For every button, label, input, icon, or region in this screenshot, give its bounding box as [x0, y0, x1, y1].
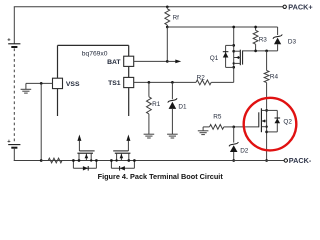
label PACK+	[288, 2, 312, 11]
wire: VSS pin to ground	[26, 83, 53, 89]
junction: bottom rail / VSS down wire	[40, 159, 43, 162]
net arrow: BAT node continues right	[167, 60, 181, 64]
resistor (series, unlabeled)	[48, 158, 62, 163]
junction: VSS wire / down wire	[40, 82, 43, 85]
junction: bottom rail / Q2 source	[265, 159, 268, 162]
svg-text:R1: R1	[152, 101, 161, 108]
svg-text:Figure 4. Pack Terminal Boot C: Figure 4. Pack Terminal Boot Circuit	[98, 172, 224, 181]
pin BAT (pin box)	[124, 56, 134, 66]
IC U1 bq769x0 (outline, bottom open)	[58, 45, 129, 116]
svg-text:Rf: Rf	[173, 16, 179, 22]
wire: battery stack top lead	[13, 7, 15, 44]
svg-text:PACK+: PACK+	[288, 2, 312, 11]
wire: BAT pin to Rf node	[134, 60, 168, 62]
junction: bottom rail / D2	[232, 159, 235, 162]
transistor: charge FET (with body diode, gate arrow to CHG)	[72, 135, 98, 171]
svg-text:R3: R3	[259, 36, 268, 43]
label VSS	[66, 81, 80, 88]
wire: PACK+ top rail	[14, 6, 283, 8]
caption	[98, 172, 224, 181]
svg-text:TS1: TS1	[108, 80, 121, 87]
resistor R3	[253, 27, 258, 51]
junction: gate node / R4	[265, 50, 268, 53]
svg-text:Q1: Q1	[210, 55, 219, 62]
junction: second rail / Q1 drain	[232, 26, 235, 29]
wire: VSS node down to bottom rail	[40, 83, 42, 160]
highlight circle around Q2	[244, 98, 297, 151]
label R4	[270, 73, 279, 80]
svg-text:D3: D3	[288, 38, 297, 45]
resistor R4	[264, 51, 269, 109]
junction: BAT node	[166, 60, 169, 63]
junction: Q2 gate node	[232, 126, 235, 129]
resistor Rf	[165, 7, 170, 27]
junction: gate node / R3	[254, 50, 257, 53]
label R1	[152, 101, 161, 108]
label PACK-	[289, 156, 312, 165]
svg-text:PACK‑: PACK‑	[289, 156, 312, 165]
wire: R5 to ground	[202, 127, 204, 131]
svg-text:Q2: Q2	[283, 119, 292, 126]
wire: battery stack (dashed, additional cells)	[13, 48, 15, 143]
wire: TS1 pin to Q1 source riser	[134, 67, 234, 82]
wire: Q2 gate to R5/D2 node	[234, 126, 259, 128]
junction: TS1 / R1	[148, 81, 151, 84]
label D2	[240, 147, 249, 154]
label R5	[213, 113, 222, 120]
resistor R2	[196, 80, 211, 85]
label R2	[197, 74, 206, 81]
label BAT	[107, 59, 121, 66]
resistor R1	[147, 82, 152, 134]
svg-text:D1: D1	[178, 104, 187, 111]
ground (R5)	[198, 131, 209, 135]
label Q2	[283, 119, 292, 126]
svg-text:R5: R5	[213, 113, 222, 120]
svg-text:R4: R4	[270, 73, 279, 80]
label bq769x0	[82, 51, 108, 58]
svg-text:bq769x0: bq769x0	[82, 51, 108, 58]
junction: second rail / R3	[254, 26, 257, 29]
wire: Rf line down to BAT node	[166, 27, 168, 61]
zener diode D2	[229, 127, 238, 161]
battery cell B2 (bottom of stack)	[7, 139, 20, 148]
junction: Rf bottom / second rail	[166, 26, 169, 29]
transistor: discharge FET (with body diode, gate arrow to DSG)	[110, 135, 136, 171]
zener diode D3	[273, 27, 282, 51]
terminal PACK-	[284, 159, 287, 162]
ground (R1)	[144, 134, 155, 138]
wire: bottom rail	[41, 160, 284, 162]
junction: TS1 / D1	[171, 81, 174, 84]
resistor R5	[203, 125, 234, 130]
battery cell B1 (top of stack)	[7, 38, 20, 47]
junction: top rail / Rf	[166, 5, 169, 8]
label Q1	[210, 55, 219, 62]
svg-text:R2: R2	[197, 74, 206, 81]
zener diode D1	[168, 82, 177, 134]
label D3	[288, 38, 297, 45]
label TS1	[108, 80, 121, 87]
svg-text:D2: D2	[240, 147, 249, 154]
svg-text:VSS: VSS	[66, 81, 80, 88]
ground (VSS)	[21, 89, 32, 93]
label D1	[178, 104, 187, 111]
wire: battery negative to bottom rail	[14, 148, 41, 161]
transistor Q1 (P-channel MOSFET with body diode)	[223, 27, 243, 69]
ground (D1)	[167, 134, 178, 138]
label Rf	[173, 16, 179, 22]
wire: second rail (Q1 drain rail)	[167, 26, 277, 28]
pin VSS (pin box)	[53, 78, 63, 88]
wire: Q1 gate node (gate to R3/R4/D3)	[243, 50, 278, 52]
terminal PACK+	[283, 5, 286, 8]
svg-text:BAT: BAT	[107, 59, 121, 66]
label R3	[259, 36, 268, 43]
pin TS1 (pin box)	[124, 77, 134, 87]
transistor Q2 (N-channel MOSFET with body diode)	[259, 108, 280, 160]
